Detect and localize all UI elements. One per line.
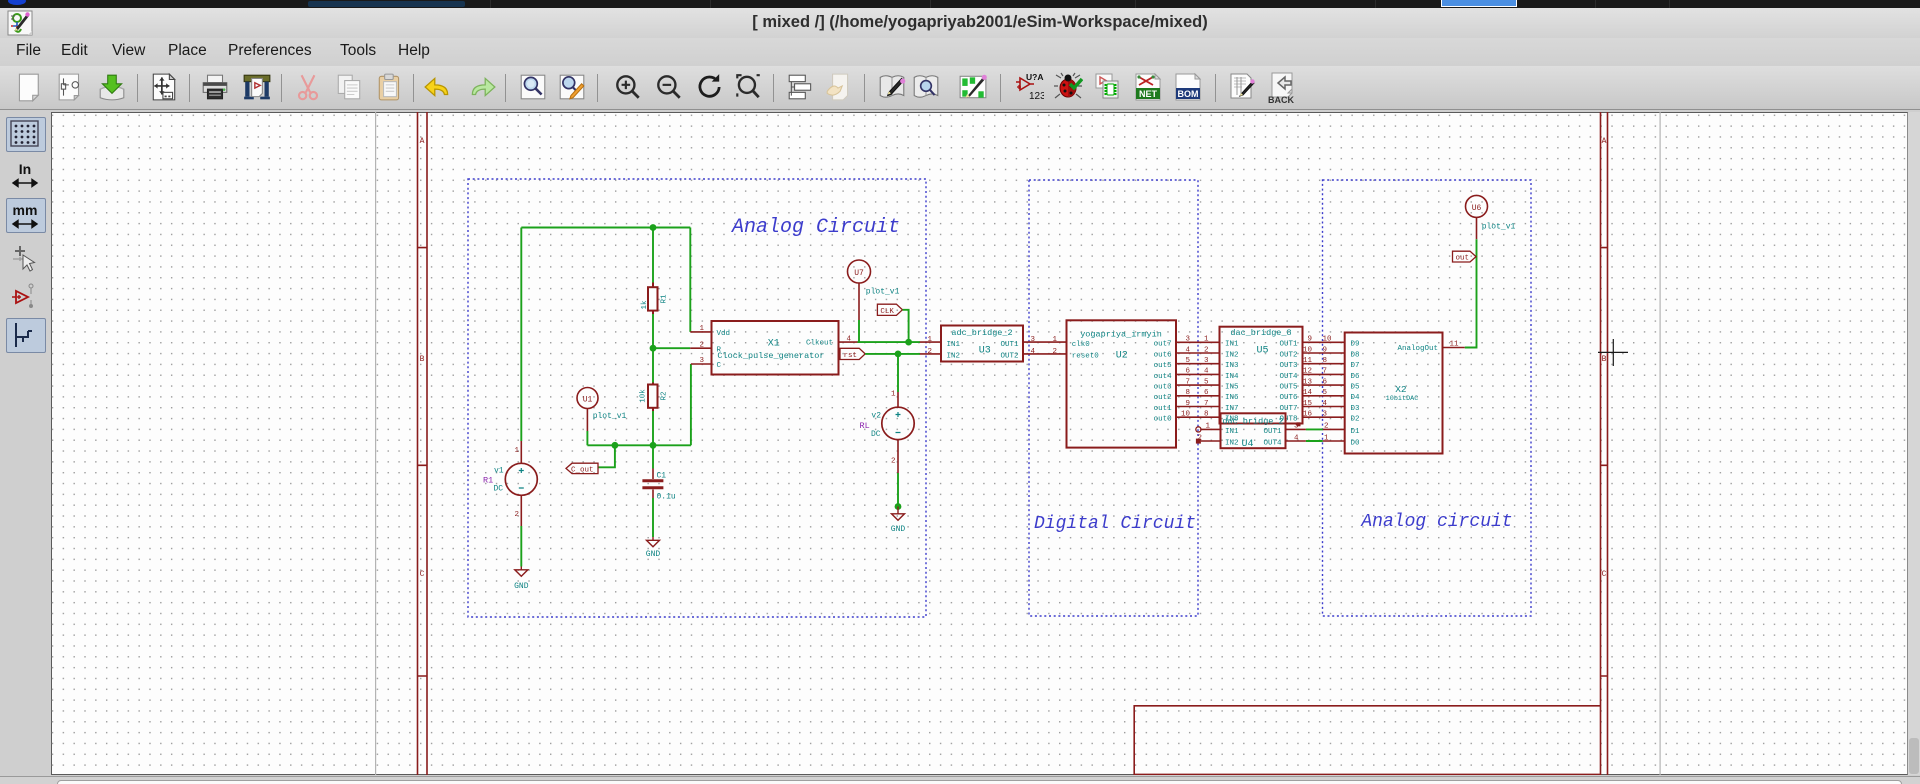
svg-text:reset0: reset0 [1072,352,1100,360]
wire bottom horizontal node row [587,444,691,446]
svg-text:Analog Circuit: Analog Circuit [730,216,900,239]
svg-text:OUT4: OUT4 [1279,373,1298,381]
svg-text:15: 15 [1303,400,1313,408]
scrollbars [1908,112,1920,775]
dac bridge U5 [1220,327,1303,424]
svg-text:plot_v1: plot_v1 [1482,223,1516,232]
svg-text:plot_v1: plot_v1 [866,288,900,297]
svg-text:Digital Circuit: Digital Circuit [1034,514,1196,534]
svg-text:C1: C1 [657,472,667,481]
top taskbar [0,0,1920,8]
svg-text:Analog circuit: Analog circuit [1360,512,1512,532]
svg-text:1: 1 [514,447,519,455]
dashed box Analog Circuit left [468,179,926,617]
svg-text:4: 4 [1323,400,1328,408]
wire clock vertical pin3 [690,364,692,445]
junction node at R1-R2 row [650,345,657,352]
svg-text:D7: D7 [1351,362,1360,370]
svg-text:6: 6 [1204,389,1209,397]
svg-text:U4: U4 [1241,439,1253,450]
wire vertical into R1 [652,228,654,283]
wire U4 OUT1 to X2 D1 [1306,428,1323,430]
junction at V2 drop [895,351,902,358]
unconnected pin marker U4 IN1 [1196,427,1201,432]
svg-text:10: 10 [1303,346,1313,354]
svg-text:1: 1 [891,390,896,398]
svg-text:clk0: clk0 [1072,341,1091,349]
svg-text:IN4: IN4 [1225,373,1239,381]
svg-text:out5: out5 [1154,362,1173,370]
global label C_out [566,463,598,473]
svg-text:6: 6 [1185,368,1190,376]
svg-text:B: B [420,355,425,364]
svg-text:7: 7 [1185,378,1190,386]
svg-text:3: 3 [1323,411,1328,419]
svg-text:13: 13 [1303,378,1313,386]
svg-text:AnalogOut: AnalogOut [1397,345,1438,353]
svg-text:3: 3 [1204,357,1209,365]
svg-text:IN1: IN1 [1225,341,1239,349]
mouse cursor crosshair [1598,339,1628,366]
svg-text:dac_bridge_2: dac_bridge_2 [1222,417,1283,427]
global label CLK [877,304,902,315]
svg-text:2: 2 [699,341,704,349]
svg-text:2: 2 [1204,346,1209,354]
wire V2 to GND [897,473,899,507]
svg-text:2: 2 [514,511,519,519]
svg-text:OUT3: OUT3 [1279,362,1298,370]
svg-text:D8: D8 [1351,351,1360,359]
wire junction row to clock pin2 [653,347,690,349]
wire U1 drop [586,431,588,445]
junction node at R1 top row [650,224,657,231]
svg-text:OUT1: OUT1 [1000,341,1019,349]
svg-text:4: 4 [1031,348,1036,356]
plot component U7 [848,260,871,283]
wire node to capacitor [652,445,654,468]
svg-text:v2: v2 [871,412,881,421]
svg-text:adc_bridge_2: adc_bridge_2 [951,328,1012,338]
svg-text:yogapriya_irmyin: yogapriya_irmyin [1080,329,1162,339]
resistor R2 [648,383,658,412]
DAC X2 [1345,333,1443,454]
junction node at C_out drop [612,442,619,449]
wire C_out drop [599,445,615,467]
svg-text:2: 2 [927,348,932,356]
svg-text:C: C [717,362,722,370]
svg-text:U3: U3 [979,346,991,357]
wire CLK to clkout row [903,310,909,342]
svg-text:In: In [19,161,31,177]
U3 pin stubs IN1 IN2 OUT1 OUT2 [920,342,1067,354]
page limit line right [1660,112,1661,775]
svg-text:D3: D3 [1351,405,1361,413]
sheet border left double line [418,112,1608,775]
svg-text:1: 1 [1324,434,1329,442]
svg-text:Clock_pulse_generator: Clock_pulse_generator [717,351,824,361]
wire U4 OUT2 to X2 D0 [1306,440,1323,442]
svg-text:RL: RL [860,421,870,431]
svg-text:D5: D5 [1351,384,1361,392]
svg-text:v1: v1 [494,467,504,476]
svg-text:IN7: IN7 [1225,405,1239,413]
svg-text:out4: out4 [1154,373,1173,381]
svg-text:14: 14 [1303,389,1313,397]
svg-text:U?A: U?A [1026,72,1043,82]
svg-text:R1: R1 [483,476,493,486]
svg-text:8: 8 [1323,357,1328,365]
svg-text:11: 11 [1303,357,1313,365]
svg-text:U7: U7 [854,269,864,278]
svg-text:U1: U1 [583,396,593,405]
wire R2 to bottom node [652,411,654,445]
wire clkout to adc [858,341,921,343]
page limit line left [375,112,376,775]
svg-text:9: 9 [1307,336,1312,344]
svg-text:10bitDAC: 10bitDAC [1386,395,1419,403]
svg-text:0.1u: 0.1u [657,493,676,502]
svg-text:out2: out2 [1154,394,1172,402]
svg-text:D4: D4 [1351,394,1361,402]
svg-text:GND: GND [514,582,529,591]
svg-text:1: 1 [1204,336,1209,344]
wire capacitor to GND [652,498,654,537]
svg-text:10k: 10k [639,389,647,403]
svg-text:C: C [1602,570,1607,579]
svg-text:5: 5 [1323,389,1328,397]
svg-text:DC: DC [494,485,504,494]
svg-text:7: 7 [1204,400,1209,408]
svg-text:D2: D2 [1351,416,1360,424]
svg-text:4: 4 [1294,434,1299,442]
svg-text:D9: D9 [1351,341,1360,349]
svg-text:GND: GND [891,525,906,534]
svg-text:C_out: C_out [571,466,594,474]
svg-text:OUT4: OUT4 [1263,439,1282,447]
U5 output pin stubs OUT1..OUT8 to X2 D9..D2 [1303,342,1345,417]
wire V1 to GND [520,526,522,567]
svg-text:OUT2: OUT2 [1000,353,1018,361]
svg-text:IN6: IN6 [1225,394,1239,402]
digital block U2 [1067,320,1177,447]
voltage source V2 [882,392,914,473]
svg-text:out: out [1456,255,1470,263]
wire top horizontal V1 to clock vertical [521,227,690,229]
svg-text:dac_bridge_8: dac_bridge_8 [1230,328,1291,338]
svg-text:U5: U5 [1256,346,1268,357]
svg-text:IN2: IN2 [1225,351,1239,359]
junction at CLK drop [905,339,912,346]
svg-text:4: 4 [1204,368,1209,376]
svg-text:8: 8 [1185,389,1190,397]
svg-text:NET: NET [1139,89,1158,99]
dashed box Analog circuit right [1323,180,1532,616]
plot component U6 [1466,195,1488,217]
toolbar [0,66,1920,110]
svg-text:4: 4 [846,335,851,343]
svg-text:IN1: IN1 [947,341,961,349]
wire clock vertical pin1 [689,228,691,332]
wire DAC AnalogOut up to U6 [1465,239,1477,347]
U4 pin stubs and X2 D1 D0 stubs [1201,429,1345,441]
svg-text:5: 5 [1204,378,1209,386]
svg-text:2: 2 [891,458,896,466]
svg-text:3: 3 [699,357,704,365]
svg-text:mm: mm [13,202,38,218]
wire R1 to R2 [652,314,654,383]
voltage source V1 [505,441,537,526]
svg-text:R1: R1 [660,294,668,304]
svg-text:Vdd: Vdd [717,330,731,338]
plot component U1 [577,388,598,409]
title block outline [1134,706,1600,775]
wire rst to adc IN2 [865,353,920,355]
svg-text:IN5: IN5 [1225,384,1239,392]
svg-text:X2: X2 [1395,384,1407,395]
svg-text:10: 10 [1323,336,1333,344]
svg-text:9: 9 [1323,346,1328,354]
svg-text:DC: DC [871,430,881,439]
svg-text:out0: out0 [1154,416,1173,424]
svg-text:1: 1 [699,325,704,333]
svg-text:Clkout: Clkout [806,339,833,347]
svg-text:out7: out7 [1154,341,1172,349]
svg-text:IN2: IN2 [1225,439,1239,447]
ground under V2 [892,507,905,521]
svg-text:rst: rst [844,352,858,360]
svg-text:OUT1: OUT1 [1279,341,1298,349]
app window icon [7,10,33,36]
adc bridge U3 [941,326,1023,362]
title bar [0,8,1920,38]
svg-text:IN2: IN2 [947,353,961,361]
svg-text:1k: 1k [641,300,649,310]
svg-text:2: 2 [1324,423,1329,431]
junction square at U5 OUT8 stub end [1297,422,1301,426]
svg-text:out1: out1 [1154,405,1173,413]
dac bridge U4 [1221,413,1286,448]
junction above V2 ground [895,503,902,510]
svg-text:1: 1 [1052,336,1057,344]
capacitor C1 [642,469,663,499]
svg-text:D0: D0 [1351,439,1361,447]
svg-text:D1: D1 [1351,428,1361,436]
svg-text:CLK: CLK [880,308,894,316]
svg-text:6: 6 [1323,378,1328,386]
svg-text:OUT1: OUT1 [1263,428,1282,436]
svg-text:OUT6: OUT6 [1279,394,1298,402]
svg-text:IN3: IN3 [1225,362,1239,370]
svg-text:BACK: BACK [1268,95,1294,104]
ground under C1 [647,537,660,547]
ground under V1 [515,567,528,577]
global label rst [840,348,865,359]
svg-text:5: 5 [1185,357,1190,365]
svg-text:10: 10 [1181,411,1191,419]
U2 output pin stubs out7..out0 to U5 [1176,342,1220,417]
resistor R1 [648,283,658,315]
svg-text:R2: R2 [660,391,668,400]
svg-text:16: 16 [1303,411,1313,419]
svg-text:3: 3 [1031,336,1036,344]
wire left vertical to V1 [520,228,522,442]
svg-text:11: 11 [1450,341,1460,349]
svg-text:out6: out6 [1154,351,1173,359]
svg-text:BOM: BOM [1178,89,1199,99]
svg-text:4: 4 [1185,346,1190,354]
svg-text:GND: GND [646,550,661,559]
svg-text:2: 2 [1197,434,1202,442]
clock pulse generator X1 [712,321,839,375]
svg-text:OUT7: OUT7 [1279,405,1297,413]
svg-text:out3: out3 [1154,384,1173,392]
wire rst row down to V2 [897,354,899,392]
svg-text:U6: U6 [1472,204,1482,213]
svg-text:3: 3 [1185,336,1190,344]
dashed box Digital Circuit [1029,180,1198,616]
svg-text:8: 8 [1204,411,1209,419]
svg-text:X1: X1 [768,338,780,349]
svg-text:12: 12 [1303,368,1312,376]
svg-text:C: C [420,570,425,579]
svg-text:7: 7 [1323,368,1328,376]
wire U7 to clkout row [858,320,860,342]
svg-text:OUT5: OUT5 [1279,384,1298,392]
svg-text:A: A [1602,137,1607,146]
svg-text:1: 1 [927,336,932,344]
svg-text:B: B [1602,355,1607,364]
left tool column [0,110,51,784]
svg-text:plot_v1: plot_v1 [593,412,627,421]
global label out [1453,251,1477,262]
svg-text:9: 9 [1185,400,1190,408]
svg-text:OUT2: OUT2 [1279,351,1297,359]
svg-text:IN1: IN1 [1225,428,1239,436]
svg-text:D6: D6 [1351,373,1361,381]
svg-text:A: A [420,137,425,146]
menu bar [0,38,1920,66]
svg-text:2: 2 [1052,348,1057,356]
svg-text:1: 1 [1205,423,1210,431]
svg-text:123: 123 [1029,91,1044,102]
unconnected pin marker U4 IN2 [1196,439,1201,444]
svg-text:U2: U2 [1116,351,1128,362]
junction node at bottom row / capacitor [650,442,657,449]
